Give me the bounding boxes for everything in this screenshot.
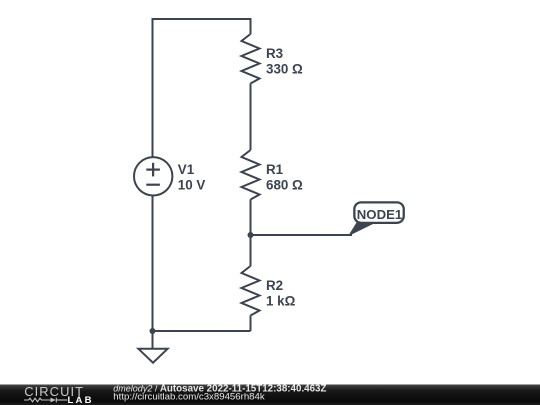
resistor R2 <box>242 266 260 316</box>
node junction dot left <box>150 328 156 334</box>
wire R2 to bottom <box>250 316 252 332</box>
svg-text:http://circuitlab.com/c3x89456: http://circuitlab.com/c3x89456rh84k <box>113 391 265 402</box>
node flag tail <box>348 223 376 237</box>
svg-text:R1: R1 <box>266 162 284 177</box>
svg-text:NODE1: NODE1 <box>357 207 402 222</box>
wire ground lead <box>152 331 154 348</box>
wire node horizontal <box>251 234 353 236</box>
logo resistor-diode squiggle <box>24 398 67 403</box>
wire left vertical lower <box>152 195 154 331</box>
svg-text:1 kΩ: 1 kΩ <box>266 294 296 309</box>
wire right lead to R3 <box>250 18 252 34</box>
svg-text:680 Ω: 680 Ω <box>266 177 303 192</box>
resistor R3 <box>242 34 260 84</box>
wire R1 to node <box>250 200 252 236</box>
wire node to R2 <box>250 235 252 266</box>
svg-text:LAB: LAB <box>68 395 94 405</box>
resistor R1 <box>242 150 260 200</box>
wire top horizontal <box>153 18 251 20</box>
ground <box>138 349 167 363</box>
svg-text:R2: R2 <box>266 278 283 293</box>
voltage source V1 <box>134 157 172 195</box>
wire R3 to R1 <box>250 84 252 151</box>
svg-text:V1: V1 <box>178 162 195 177</box>
svg-text:330 Ω: 330 Ω <box>266 61 303 76</box>
wire bottom horizontal <box>153 330 251 332</box>
svg-text:10 V: 10 V <box>178 177 206 192</box>
wire left vertical upper <box>152 18 154 157</box>
footer bar <box>0 385 540 405</box>
node flag NODE1 <box>354 202 403 223</box>
node junction dot NODE1 <box>248 232 254 238</box>
svg-text:R3: R3 <box>266 46 283 61</box>
